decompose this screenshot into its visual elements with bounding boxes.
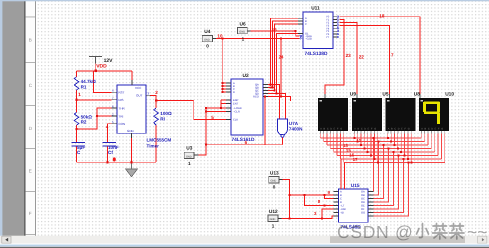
svg-text:U10: U10: [445, 92, 454, 98]
junction dots bus: [353, 137, 412, 164]
svg-text:OUT: OUT: [136, 94, 143, 98]
wire Y1 net23 to display 1: [325, 20, 344, 94]
svg-text:100Ω: 100Ω: [160, 111, 172, 116]
junction dots U2 left: [205, 82, 224, 146]
wire dropper 4 to U15 pin: [374, 152, 394, 206]
wire segment level 7: [344, 162, 445, 164]
wire bus drop a to U15 top: [340, 159, 342, 189]
capacitor Cf: [103, 143, 117, 146]
wire CLR stub: [206, 111, 231, 113]
wire row A to U15: [290, 194, 334, 196]
resistor R1: [74, 77, 79, 90]
svg-text:OG: OG: [361, 212, 365, 215]
svg-text:G: G: [408, 128, 410, 131]
svg-text:0: 0: [273, 185, 276, 190]
svg-text:10nF: 10nF: [108, 145, 119, 150]
resistor R2: [74, 112, 79, 125]
wire 555 GND down: [131, 138, 133, 162]
top window edge line: [0, 0, 489, 1]
junction dot G2A corner: [295, 30, 297, 32]
svg-text:U2: U2: [243, 73, 249, 79]
wire segment level 0: [320, 137, 421, 139]
svg-text:D: D: [364, 128, 366, 131]
svg-text:18: 18: [379, 14, 385, 19]
wire Y0 net18: [339, 17, 420, 94]
svg-text:GND: GND: [271, 180, 277, 183]
wire U4 constant run to A-D: [222, 38, 224, 92]
wire dropper 1 to U15 pin: [374, 142, 379, 196]
constant U6: [238, 22, 251, 42]
ruler letters: [29, 38, 33, 217]
wire RI top: [155, 100, 157, 108]
svg-text:C: C: [361, 128, 363, 131]
wire segment level 3: [330, 148, 431, 150]
svg-text:1: 1: [188, 161, 191, 166]
svg-text:~CLR: ~CLR: [233, 111, 240, 114]
display U5: [352, 92, 389, 131]
svg-text:VDD: VDD: [96, 64, 107, 70]
wire U12 to U15: [282, 216, 334, 218]
wire dropper 3 to U15 pin: [374, 149, 389, 203]
bottom status strip: [0, 243, 489, 246]
svg-text:C: C: [394, 128, 396, 131]
wire net6 bottom run: [206, 144, 283, 146]
svg-text:U8: U8: [414, 92, 420, 98]
svg-text:Timer: Timer: [147, 144, 160, 149]
svg-text:U6: U6: [240, 22, 246, 28]
svg-text:~~: ~~: [467, 222, 487, 242]
svg-text:U4: U4: [204, 29, 210, 35]
wire CON to Cf: [107, 124, 111, 143]
wire segment level 4: [334, 151, 435, 153]
workspace gray band left: [0, 0, 25, 237]
svg-text:CLK: CLK: [233, 119, 238, 122]
constant U4: [202, 29, 216, 48]
wire VDD rail: [77, 70, 133, 72]
svg-text:CSDN @: CSDN @: [337, 222, 413, 242]
svg-text:5: 5: [211, 115, 214, 120]
display U9: [318, 92, 356, 131]
svg-text:R2: R2: [81, 120, 87, 125]
svg-text:1: 1: [242, 36, 245, 41]
svg-text:4: 4: [106, 124, 109, 129]
gate U7A 7400N: [277, 119, 303, 137]
svg-text:Cf: Cf: [108, 150, 113, 155]
svg-text:0: 0: [113, 157, 116, 162]
svg-text:10: 10: [217, 33, 223, 38]
display pin stubs: [320, 131, 444, 134]
svg-text:ENT: ENT: [233, 103, 239, 106]
junction dots QA-QD cluster: [264, 37, 282, 97]
wire QD to NAND b: [276, 94, 285, 119]
svg-text:23: 23: [346, 53, 352, 58]
svg-text:U7A: U7A: [289, 121, 299, 126]
svg-text:B: B: [29, 38, 32, 43]
svg-text:F: F: [29, 211, 32, 216]
svg-text:44.7kΩ: 44.7kΩ: [81, 79, 96, 84]
wire dropper 0 to U15 pin: [373, 138, 375, 192]
svg-text:LMC555CM: LMC555CM: [147, 138, 172, 143]
svg-text:TRI: TRI: [119, 114, 124, 118]
svg-text:GND: GND: [186, 155, 192, 158]
wire dropper 6 to U15 pin: [374, 159, 404, 213]
constant U13: [269, 170, 283, 189]
wires U11 Y outputs to displays: [325, 17, 420, 98]
svg-text:G: G: [441, 128, 443, 131]
wire CLK run: [194, 100, 231, 119]
svg-text:GND: GND: [127, 129, 135, 133]
svg-text:RST: RST: [119, 91, 125, 95]
resistor RI: [154, 108, 159, 125]
svg-text:U5: U5: [382, 92, 388, 98]
decoder U11 74LS138D: [298, 6, 339, 58]
constant U12: [268, 209, 282, 228]
wire LOAD run: [206, 107, 231, 109]
sheet edge dark line: [24, 0, 25, 237]
svg-text:U3: U3: [186, 146, 192, 152]
wire row B link: [304, 195, 333, 206]
svg-text:C: C: [428, 128, 430, 131]
wire RCO hug down to net6: [264, 97, 266, 145]
svg-text:1: 1: [78, 92, 81, 97]
display top pin stubs: [324, 94, 326, 98]
wire U4 to G2B: [216, 37, 299, 39]
IC U1 timer LMC555CM: [111, 80, 171, 148]
svg-text:C: C: [305, 23, 307, 26]
glyph cai 1: [433, 225, 447, 227]
svg-text:74LS138D: 74LS138D: [305, 51, 328, 57]
wire U6 to G2A: [251, 31, 300, 36]
bottom horizontal scrollbar: [0, 236, 489, 244]
wire RCO stub: [268, 97, 290, 101]
wire NAND out to net6: [281, 137, 283, 145]
wire rail to R1: [76, 71, 78, 77]
svg-text:GND: GND: [270, 218, 276, 221]
svg-text:D: D: [330, 128, 332, 131]
wires QA-QD risers to U11: [265, 18, 298, 145]
wire ENP ENT tie: [221, 99, 231, 101]
wire segment level 5: [337, 155, 438, 157]
capacitor C: [71, 143, 85, 146]
wire DIS tap: [77, 99, 112, 101]
wire THR TRI tap: [77, 108, 112, 129]
junction dots U15 area: [289, 194, 326, 219]
svg-text:DIS: DIS: [119, 98, 124, 102]
watermark CSDN: [337, 222, 487, 242]
svg-text:5μF: 5μF: [77, 145, 85, 150]
svg-text:GND: GND: [204, 39, 210, 42]
wire QA to NAND a: [270, 85, 279, 119]
wire segment level 6: [340, 158, 441, 160]
svg-text:D: D: [398, 128, 400, 131]
svg-text:0: 0: [206, 43, 209, 48]
counter U2 74LS161D: [226, 73, 268, 143]
wire QA to A: [268, 18, 298, 84]
svg-text:7400N: 7400N: [289, 127, 303, 132]
svg-text:~G2B: ~G2B: [305, 37, 312, 40]
wire bus drop b to U15 top: [343, 163, 345, 189]
svg-text:G: G: [340, 128, 342, 131]
wire QB to B: [268, 21, 298, 87]
wire QC to C: [268, 24, 298, 91]
svg-text:C: C: [327, 128, 329, 131]
wire tie rows: [325, 195, 334, 199]
svg-text:RCO: RCO: [253, 96, 259, 99]
wire dropper 2 to U15 pin: [374, 145, 384, 199]
wire dropper 7 to U15 pin: [374, 163, 409, 217]
glyph xiao: [420, 224, 423, 238]
svg-text:G: G: [374, 128, 376, 131]
wire droppers to U15: [374, 138, 409, 216]
svg-text:2: 2: [155, 90, 158, 95]
svg-text:R1: R1: [81, 84, 87, 89]
svg-text:THR: THR: [119, 106, 126, 110]
svg-text:35: 35: [269, 85, 274, 90]
ground: [126, 162, 138, 177]
wire ground rail: [77, 161, 157, 163]
decoder U15 74LS48D: [333, 183, 373, 230]
svg-text:U11: U11: [311, 6, 320, 12]
svg-text:RI: RI: [160, 117, 165, 122]
svg-text:24: 24: [279, 54, 284, 59]
svg-text:U13: U13: [270, 170, 279, 176]
wire net24 drop: [280, 38, 282, 96]
junction dots 555 area: [75, 70, 157, 164]
wire C bottom: [76, 146, 78, 163]
svg-text:D: D: [431, 128, 433, 131]
svg-text:VCC: VCC: [135, 86, 142, 90]
svg-text:U12: U12: [269, 209, 278, 215]
glyph cai 2: [450, 225, 464, 227]
wire U3 riser: [199, 108, 206, 155]
wire VCC feed to 555: [131, 71, 133, 80]
svg-text:7: 7: [391, 52, 394, 57]
display U8: [386, 92, 421, 131]
svg-text:1: 1: [272, 223, 275, 228]
wire QD to G1: [268, 34, 298, 94]
svg-text:17: 17: [353, 157, 358, 162]
wire row C branch: [322, 209, 333, 218]
wire dropper 5 to U15 pin: [374, 156, 399, 210]
digit 9 on U10: [423, 101, 440, 124]
svg-text:Y7: Y7: [326, 36, 330, 39]
wire Cf bottom: [106, 146, 108, 163]
wires to counter U2: [194, 38, 283, 155]
svg-text:50kΩ: 50kΩ: [81, 114, 93, 119]
wire OUT node: [150, 95, 194, 100]
svg-text:11: 11: [356, 138, 361, 143]
wire segment level 1: [324, 141, 425, 143]
wire U13 drop: [283, 180, 290, 219]
pin bubbles: [300, 16, 339, 39]
svg-text:U9: U9: [350, 92, 356, 98]
power VDD symbol: [89, 57, 102, 64]
wire VDD drop: [95, 63, 97, 71]
svg-text:CON: CON: [119, 122, 126, 126]
wire TRI stub: [97, 115, 112, 117]
wire Y3 net7 to display 3: [339, 25, 389, 93]
svg-text:D: D: [233, 91, 235, 94]
svg-text:74LS161D: 74LS161D: [232, 137, 255, 143]
wire R1 to R2: [76, 90, 78, 112]
wire Y2 net22 to display 2: [339, 23, 357, 94]
svg-text:E: E: [29, 169, 32, 174]
svg-text:U15: U15: [351, 183, 360, 189]
wire RI bottom: [155, 125, 157, 162]
display U10: [419, 92, 454, 131]
svg-text:~BI: ~BI: [340, 212, 344, 215]
ruler ticks: [26, 17, 35, 235]
ruler strip: [26, 0, 35, 237]
constant U3: [184, 146, 198, 166]
wire RST to rail: [94, 71, 112, 92]
svg-text:22: 22: [359, 54, 365, 59]
display segment bus staircase: [320, 131, 444, 163]
wire segment level 2: [327, 144, 428, 146]
svg-text:GND: GND: [239, 30, 245, 33]
wire R2 to C: [76, 125, 78, 142]
